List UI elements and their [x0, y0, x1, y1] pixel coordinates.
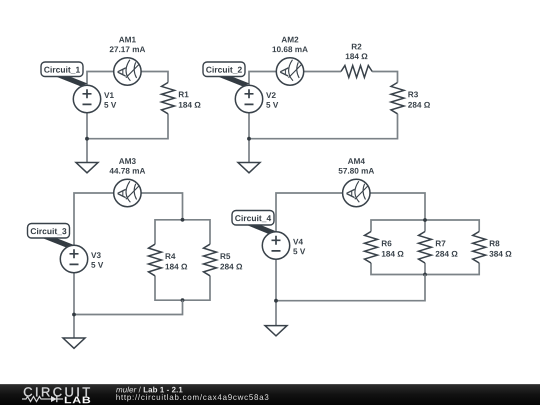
resistor R7 — [419, 232, 432, 264]
flag Circuit_3 — [28, 224, 75, 249]
wire AM1 right to R1 top — [141, 72, 168, 83]
footer logo CIRCUIT wordmark — [24, 387, 90, 396]
ground circuit3 — [63, 338, 85, 348]
ground circuit1 — [76, 163, 98, 173]
flag Circuit_1 — [41, 62, 88, 87]
node junction circuit2 ground net — [247, 137, 251, 141]
node bottom rail junction circuit3 — [181, 298, 185, 302]
footer bar background — [0, 384, 540, 405]
flag Circuit_4 — [232, 211, 277, 235]
wire V2 top to AM2 left — [249, 72, 276, 86]
label V4 value 5V — [293, 239, 305, 254]
label V1 value 5V — [104, 92, 116, 107]
wire AM2 right to R2 left — [304, 71, 341, 73]
label R3 value 284 ohm — [408, 91, 430, 107]
resistor R4 — [149, 244, 162, 276]
label R6 value 184 ohm — [382, 240, 404, 256]
resistor R8 — [473, 232, 486, 264]
wire top rail R6 R7 R8 — [371, 220, 479, 232]
resistor R2 — [341, 66, 372, 78]
footer logo LAB wordmark — [65, 397, 90, 404]
label V2 value 5V — [266, 92, 278, 108]
wire R2 right to R3 top — [372, 72, 397, 83]
footer logo resistor symbol — [22, 396, 47, 401]
footer url — [116, 394, 268, 401]
resistor R5 — [204, 244, 217, 276]
wire R3 bottom to bottom rail to V2 — [249, 114, 398, 139]
resistor R6 — [365, 232, 378, 264]
wire R7 bottom stub — [424, 263, 426, 275]
footer logo diode symbol — [47, 396, 64, 402]
label R1 value 184 ohm — [179, 92, 201, 108]
node junction circuit3 ground net — [72, 313, 76, 317]
resistor R1 — [162, 83, 175, 114]
node junction circuit4 ground net — [274, 299, 278, 303]
label AM1 reading — [110, 37, 146, 52]
wire bottom rail R4 R5 — [155, 276, 210, 300]
voltage source V4 — [262, 232, 289, 259]
wire V4 top to AM4 left — [276, 193, 343, 232]
node top rail junction circuit3 — [181, 218, 185, 222]
voltage source V1 — [73, 85, 100, 112]
wire V4 bottom to ground — [275, 259, 277, 325]
label R8 value 384 ohm — [489, 240, 511, 256]
wire R1 bottom to bottom rail to V1 — [87, 114, 168, 139]
resistor R3 — [391, 83, 404, 114]
label R4 value 184 ohm — [166, 253, 188, 269]
label AM4 reading — [339, 158, 375, 173]
ammeter AM4 — [343, 179, 370, 206]
wire bottom rail R6 R7 R8 — [371, 263, 479, 275]
wire R7 top stub — [424, 220, 426, 232]
label R7 value 284 ohm — [436, 241, 458, 257]
flag Circuit_2 — [203, 62, 250, 87]
wire V3 bottom to ground — [73, 273, 75, 338]
label AM2 reading — [273, 37, 308, 53]
wire top rail R4 R5 — [155, 220, 210, 244]
label R5 value 284 ohm — [220, 253, 242, 269]
footer bar top highlight — [0, 384, 540, 385]
ammeter AM2 — [276, 58, 303, 85]
node bottom rail junction circuit4 — [423, 273, 427, 277]
ammeter AM3 — [114, 179, 141, 206]
wire V3 top to AM3 left — [74, 193, 114, 245]
wire V2 bottom to ground — [248, 113, 250, 163]
wire bottom rail to V3 return — [74, 300, 183, 314]
label R2 value 184 ohm — [346, 44, 368, 60]
voltage source V3 — [60, 245, 87, 272]
label AM3 reading — [110, 158, 146, 174]
ground circuit4 — [265, 326, 287, 336]
ground circuit2 — [238, 163, 260, 173]
wire V1 top to AM1 left — [87, 72, 114, 86]
voltage source V2 — [235, 85, 262, 112]
node junction circuit1 ground net — [85, 137, 89, 141]
wire AM3 right to parallel top rail — [141, 193, 183, 220]
wire bottom rail to V4 return — [276, 275, 425, 301]
node top rail junction circuit4 — [423, 218, 427, 222]
wire V1 bottom to ground — [86, 113, 88, 163]
wire AM4 right to parallel top rail — [370, 193, 425, 220]
label V3 value 5V — [91, 252, 103, 268]
footer title muler Lab 1 - 2.1 — [116, 387, 182, 393]
ammeter AM1 — [114, 58, 141, 85]
